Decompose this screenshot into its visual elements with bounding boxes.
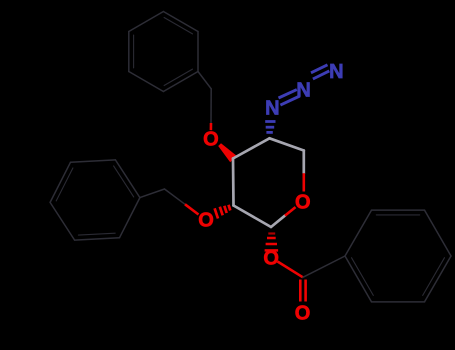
hash wedge C4 to N1 (azide, 3 dashes) xyxy=(265,122,275,133)
wire bond carbonyl C to benzoyl ipso xyxy=(303,256,345,277)
benzene ring 1 (benzyl on O3, top-left) xyxy=(129,12,198,92)
wire bond Oring-C5 (red half) xyxy=(302,173,305,191)
benzene ring 3 (benzoyl, bottom-right) xyxy=(345,210,451,302)
wire bond CH2 to O2 (dark half) xyxy=(165,189,186,204)
hash wedge C2 to O2 (4 dashes) xyxy=(215,205,231,219)
svg-text:N: N xyxy=(265,97,279,119)
svg-text:O: O xyxy=(295,303,311,325)
wire bond ring2 ipso to CH2 xyxy=(140,189,165,198)
svg-text:N: N xyxy=(329,61,343,83)
double bond N1=N2 xyxy=(279,90,300,106)
wire bond CH2 to O3 (red half) xyxy=(210,123,213,130)
hash wedge C1 to O ester (4 dashes) xyxy=(265,234,279,251)
wire bond C2-C1 xyxy=(234,206,272,228)
svg-text:O: O xyxy=(203,128,219,150)
wire bond O ester to carbonyl C xyxy=(278,262,303,278)
svg-text:O: O xyxy=(198,210,214,232)
wire bond C3-C2 xyxy=(232,159,235,206)
wire bond C1-Oring (red half) xyxy=(285,207,296,216)
wire bond C5-C4 xyxy=(270,138,304,150)
benzene ring 2 (benzyl on O2, left) xyxy=(50,160,140,240)
pyranose ring bonds (bright) xyxy=(233,138,304,227)
wire bond Oring-C5 (gray half) xyxy=(302,151,305,174)
wire bond CH2 to O2 (red half) xyxy=(185,204,199,214)
wire bond C1-Oring (gray half) xyxy=(271,216,285,227)
wire bond CH2 to O3 (dark half) xyxy=(210,89,212,123)
double bond C=O carbonyl xyxy=(300,280,305,302)
svg-text:O: O xyxy=(263,247,279,269)
svg-text:O: O xyxy=(295,192,311,214)
bold wedge O3 to C3 xyxy=(218,143,236,162)
wire bond C4-C3 xyxy=(233,138,270,158)
double bond N2=N3 xyxy=(311,65,329,79)
wire bond ring1 ipso to CH2 xyxy=(198,72,211,89)
svg-text:N: N xyxy=(296,79,310,101)
